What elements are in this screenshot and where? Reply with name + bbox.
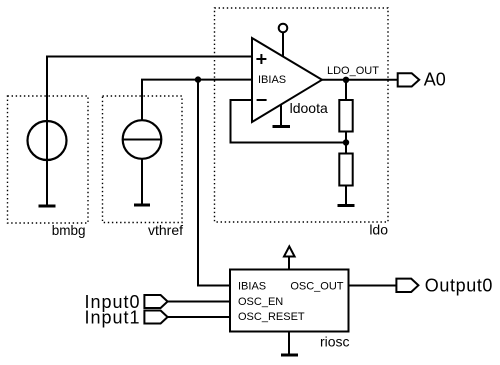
svg-text:LDO_OUT: LDO_OUT [327,65,379,77]
svg-text:bmbg: bmbg [52,223,86,238]
svg-text:riosc: riosc [320,333,350,349]
svg-text:ldoota: ldoota [290,100,328,116]
svg-text:OSC_RESET: OSC_RESET [238,311,305,323]
svg-text:ldo: ldo [369,222,388,238]
svg-text:OSC_EN: OSC_EN [238,296,283,308]
svg-text:A0: A0 [424,70,446,90]
svg-text:vthref: vthref [148,222,183,238]
svg-text:OSC_OUT: OSC_OUT [290,281,343,293]
svg-text:IBIAS: IBIAS [238,281,266,293]
svg-text:Input1: Input1 [84,308,140,328]
svg-text:IBIAS: IBIAS [258,74,286,86]
svg-text:Output0: Output0 [425,276,493,296]
